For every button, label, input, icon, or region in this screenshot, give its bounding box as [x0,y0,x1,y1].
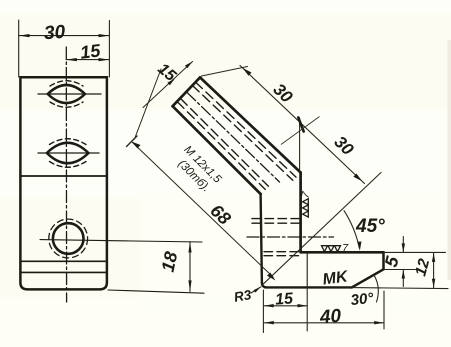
svg-text:15: 15 [275,290,295,308]
svg-text:18: 18 [158,250,182,274]
svg-text:30: 30 [43,22,66,44]
svg-text:15: 15 [79,40,102,62]
svg-text:7: 7 [342,243,349,255]
svg-text:MK: MK [322,268,350,288]
svg-text:45°: 45° [355,216,385,237]
svg-text:R3: R3 [233,287,253,305]
svg-text:40: 40 [318,306,342,329]
svg-text:30°: 30° [350,290,375,309]
